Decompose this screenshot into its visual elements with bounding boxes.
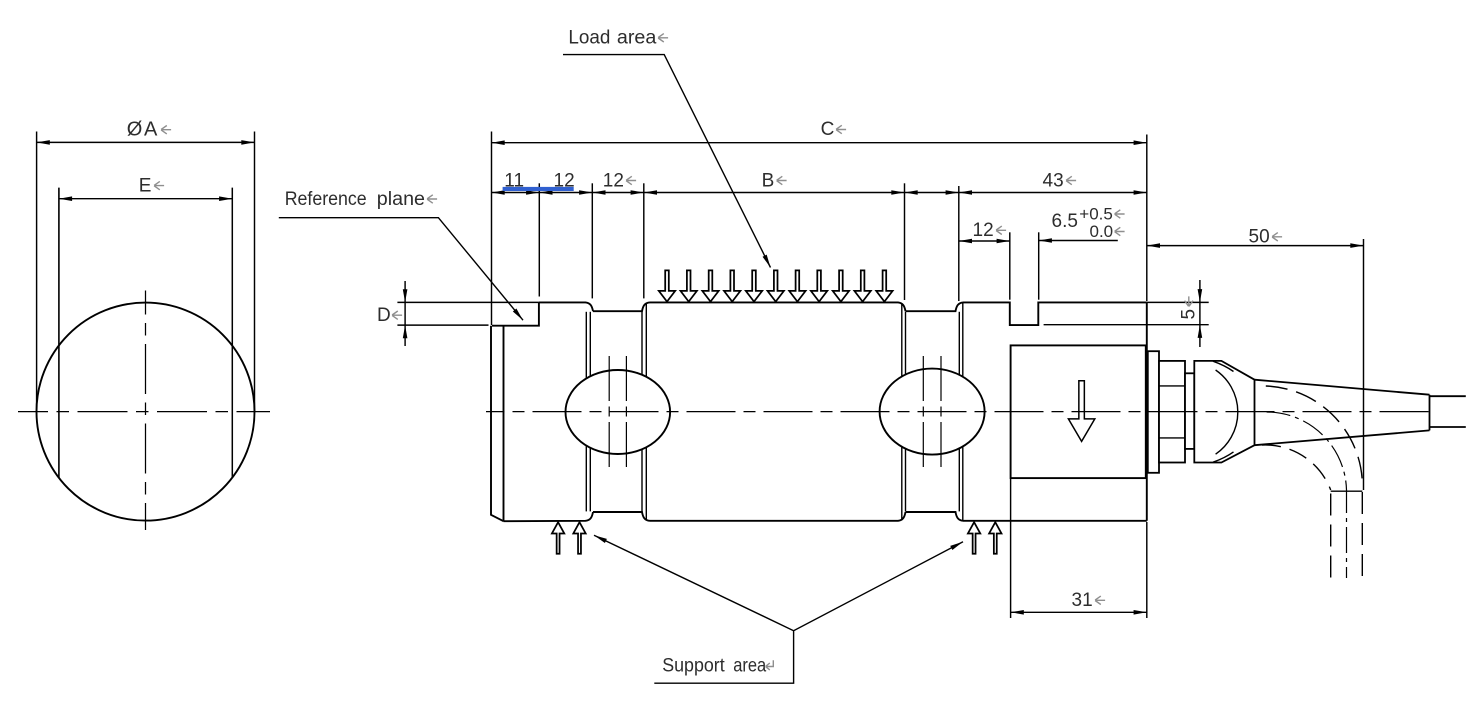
svg-text:50: 50 xyxy=(1249,227,1270,248)
extension line C right xyxy=(1146,135,1148,302)
extension line slot right xyxy=(1038,232,1040,299)
blue underline mark xyxy=(503,187,574,191)
centerline vertical left view xyxy=(145,291,147,531)
right block top face with cable slot xyxy=(963,302,1147,325)
gland dome nut xyxy=(1194,361,1254,463)
central block top face xyxy=(650,302,906,311)
Load area leader xyxy=(563,55,771,268)
Reference plane leader xyxy=(279,218,523,321)
left web top line xyxy=(593,302,650,311)
extension line 5 bottom xyxy=(1044,324,1209,326)
arrowheads 5 xyxy=(1198,289,1203,302)
bent cable left dashed line xyxy=(1330,494,1332,579)
extension line D bottom xyxy=(397,324,488,326)
return symbol xyxy=(766,660,774,670)
svg-text:C: C xyxy=(821,119,835,140)
extension line 31 left xyxy=(1010,479,1012,618)
arrowheads chain 11/12/12/B/43 xyxy=(492,190,505,195)
right web right pair xyxy=(958,312,960,375)
load arrow 7 xyxy=(789,270,805,301)
svg-text:D: D xyxy=(377,305,391,326)
bent cable inner dashed arc xyxy=(1262,445,1331,490)
dimension line OA xyxy=(37,141,255,143)
dimension line D vertical xyxy=(404,281,406,346)
svg-text:5: 5 xyxy=(1179,309,1200,320)
bent cable right dashed line xyxy=(1361,492,1363,578)
extension line 43 left xyxy=(958,186,960,301)
dimension line 6.5 slot xyxy=(1039,240,1118,242)
dome nut chamfer arcs xyxy=(1216,370,1238,454)
support arrow 4 xyxy=(989,522,1001,554)
extension line 31 right xyxy=(1146,522,1148,618)
left end cap inner ring line xyxy=(503,326,505,522)
right block bottom face xyxy=(963,520,1147,522)
reference plane step xyxy=(492,302,539,325)
load arrow 8 xyxy=(811,270,827,301)
extension line 5 top xyxy=(1147,301,1209,303)
extension line OA right xyxy=(254,132,256,412)
dimension line 31 xyxy=(1011,611,1147,613)
load arrow 10 xyxy=(854,270,870,301)
svg-text:ØA: ØA xyxy=(127,118,159,140)
central block bottom face xyxy=(650,512,906,521)
svg-text:31: 31 xyxy=(1072,590,1093,611)
right web top line xyxy=(906,302,964,311)
flat chord line right (E width) xyxy=(231,188,233,478)
bore centreline left-left xyxy=(608,356,610,467)
gland nut 1 hex flats xyxy=(1159,385,1185,387)
cable strain relief cone xyxy=(1255,380,1430,446)
arrowheads 12 gland offset xyxy=(959,239,972,244)
bore ellipse right xyxy=(880,369,985,455)
right web left pair xyxy=(901,303,903,376)
arrowheads C xyxy=(492,140,505,145)
load arrow 2 xyxy=(681,270,697,301)
left block top face xyxy=(539,302,593,311)
right block right face xyxy=(1146,302,1148,520)
bore centreline right-right xyxy=(940,356,942,467)
dimension line 12 (gland offset) xyxy=(959,240,1010,242)
support arrow 1 xyxy=(552,522,564,554)
extension line C left xyxy=(491,132,493,326)
dimension line 50 xyxy=(1147,245,1364,247)
left web bottom line xyxy=(593,512,650,521)
svg-text:area: area xyxy=(733,656,766,677)
extension line OA left xyxy=(36,132,38,412)
bore ellipse left xyxy=(566,370,671,454)
extension line 12/B xyxy=(643,183,645,298)
bent cable centre dash-dot arc xyxy=(1267,412,1347,490)
svg-text:Load: Load xyxy=(568,28,610,49)
left web right pair xyxy=(641,312,643,375)
load arrow 5 xyxy=(746,270,762,301)
main horizontal centreline side view xyxy=(486,411,1429,413)
load arrow 6 xyxy=(768,270,784,301)
cable tail lines xyxy=(1430,395,1466,397)
svg-text:0.0: 0.0 xyxy=(1090,222,1114,241)
extension line 50 right xyxy=(1363,239,1365,490)
support arrow 3 xyxy=(968,522,980,554)
circle (end view of load cell body) xyxy=(37,303,255,521)
svg-text:Support: Support xyxy=(662,656,725,677)
bent cable centre dash-dot line xyxy=(1346,490,1348,578)
mounting plate (square block) xyxy=(1011,345,1146,478)
svg-text:area: area xyxy=(617,28,657,49)
svg-text:43: 43 xyxy=(1043,170,1064,191)
bore centreline left-right xyxy=(625,356,627,467)
svg-text:6.5: 6.5 xyxy=(1052,211,1078,232)
right web bottom line xyxy=(906,512,964,521)
bent cable outer dashed arc xyxy=(1266,386,1363,486)
load arrow 9 xyxy=(833,270,849,301)
support arrow 2 xyxy=(573,522,585,554)
left end cap outer face xyxy=(491,326,504,522)
load arrow 1 xyxy=(659,270,675,301)
arrowheads 31 xyxy=(1011,610,1024,615)
chained dimension line 11-12-12-B-43 xyxy=(492,192,1147,194)
svg-text:12: 12 xyxy=(973,220,994,241)
extension line 11/12 xyxy=(538,183,540,296)
svg-text:12: 12 xyxy=(603,170,624,191)
dimension line 5 vertical xyxy=(1199,280,1201,347)
direction down arrow inside plate xyxy=(1068,381,1094,442)
left web left pair xyxy=(585,312,587,378)
gland nut 1 xyxy=(1159,361,1185,463)
load arrow 4 xyxy=(724,270,740,301)
svg-text:E: E xyxy=(139,175,152,196)
svg-text:plane: plane xyxy=(377,189,425,210)
arrowhead 6.5 slot xyxy=(1039,238,1052,243)
centerline horizontal left view xyxy=(18,411,270,413)
extension line D top xyxy=(397,301,539,303)
load arrow 11 xyxy=(876,270,892,301)
left block bottom face xyxy=(504,512,594,521)
bent cable end dash xyxy=(1331,490,1363,492)
svg-text:Reference: Reference xyxy=(285,189,367,210)
load arrow 3 xyxy=(702,270,718,301)
svg-text:B: B xyxy=(762,170,775,191)
dimension line C xyxy=(492,142,1147,144)
web face vertical lines (broken by bore ellipses) xyxy=(586,303,963,520)
dimension line E xyxy=(59,198,232,200)
extension line B right xyxy=(904,183,906,300)
extension line 12/12 xyxy=(591,183,593,298)
cable gland collar xyxy=(1148,351,1159,473)
extension line slot left xyxy=(1009,232,1011,299)
Support area leader xyxy=(594,535,963,683)
svg-text:+0.5: +0.5 xyxy=(1079,205,1113,224)
dim text 5 rotated xyxy=(1179,296,1200,319)
arrowheads 50 xyxy=(1147,243,1160,248)
bore centreline right-left xyxy=(922,356,924,467)
gland spacer ring xyxy=(1185,373,1194,449)
flat chord line left (E width) xyxy=(58,188,60,478)
arrowheads D xyxy=(403,289,408,302)
